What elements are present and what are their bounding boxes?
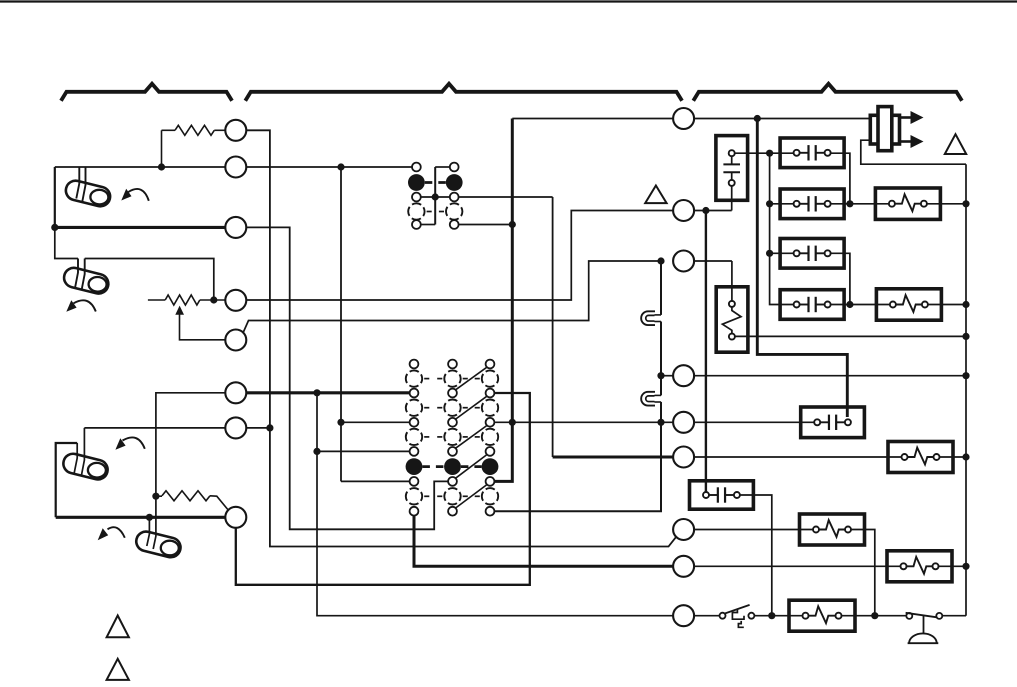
- wire: knob K4 tick1: [147, 517, 150, 546]
- wire: terminal T4 row from autopilot terminal R2: [246, 211, 673, 301]
- rotation arrow for K3: [115, 437, 144, 449]
- wire: terminal R5 row to cap filter C6: [694, 421, 814, 423]
- trim wheel knob K1: [64, 179, 112, 209]
- warning triangle note 4: [945, 134, 966, 154]
- wire: knob K2 pickup ticks: [75, 259, 85, 290]
- wire: SW2 to right bus corner: [942, 615, 966, 617]
- resistor filter FR4 box: [800, 514, 865, 545]
- junction dot: thick vertical V6 on R1 row: [754, 115, 761, 122]
- annotation brace: autopilot computer section: [245, 84, 682, 101]
- warning triangle note 2: [107, 659, 129, 680]
- cap filter C4 box: [780, 290, 844, 320]
- junction dot: right bus FL2 row: [962, 333, 969, 340]
- terminal R7: [673, 519, 694, 540]
- wire: terminal T1 to long vertical V1 down to terminal R7 row: [246, 130, 676, 546]
- wire: vertical V8 feeding cap filter bank: [770, 153, 794, 304]
- wire: knob K2 tick2 to potentiometer right junction: [85, 259, 214, 301]
- terminal R1: [673, 108, 694, 129]
- wire: terminal T3 row (thick): [55, 226, 226, 229]
- terminal T3: [225, 217, 246, 238]
- junction dot: V3 tap on T2 row: [337, 163, 344, 170]
- S1 wafer matrix col1 contacts: [406, 360, 430, 516]
- junction dot: R2 row to vertical V7: [702, 207, 709, 214]
- resistor R1 body and leads: [162, 125, 226, 167]
- junction dot: col1 row3 tap on V3: [337, 419, 344, 426]
- wire: knob K3 bracket to T8 row: [56, 443, 77, 517]
- junction dot: knob K4 tick on T8 row: [146, 514, 153, 521]
- wire: wafer col3 row3 to cap filter C6 row: [494, 421, 673, 423]
- wire: relay filter FL2 bottom to right bus: [735, 335, 966, 337]
- relay filter FL2 (resistor) box: [716, 287, 748, 352]
- annotation brace: aircraft wiring section: [693, 84, 962, 101]
- cap filter C1 box: [780, 138, 844, 168]
- wire: V5 top row through terminal R1 to horn: [512, 118, 868, 120]
- junction dot: R2 lead on K4 vertical: [152, 493, 159, 500]
- junction dot: V8 on C2 row: [766, 200, 773, 207]
- cap filter C5 box: [690, 481, 754, 509]
- rotation arrow for K2: [66, 300, 96, 312]
- S1 wafer matrix position diagonals: [456, 367, 487, 508]
- annotation brace: control wheel section: [61, 84, 232, 101]
- S1 wafer A col2 contacts: [439, 163, 463, 229]
- terminal R6: [673, 447, 694, 468]
- wire: vertical V7 from R2 row to cap filter C5: [705, 211, 707, 493]
- wire: terminal T6 row to switch wafer col1 (thick): [246, 391, 409, 394]
- rotation arrow for K4: [98, 527, 125, 540]
- S1 wafer matrix left stub wires: [317, 422, 410, 481]
- junction dot: R3 row: [657, 257, 664, 264]
- wire: terminal T7 to junction on V1: [246, 427, 270, 429]
- relay filter FL1 (capacitor) box: [716, 136, 748, 201]
- S1 wafer matrix col3 contacts: [475, 360, 499, 516]
- terminal T6: [225, 382, 246, 403]
- wire: T8 down and across to vertical V3 up to switch wafer col3: [236, 393, 530, 585]
- wire: terminal T8 row (thick): [56, 516, 226, 519]
- wire: terminal R3 to relay filter FL2 top: [694, 261, 732, 301]
- cap filter C2 box: [780, 189, 844, 219]
- junction dot: RP1 right lead: [210, 296, 217, 303]
- cap filter C6 box: [801, 407, 865, 438]
- junction dot: right bus FR3 row: [962, 453, 969, 460]
- wire: FR5 to right bus: [939, 565, 967, 567]
- wire: knob K1 pickup ticks: [76, 167, 85, 202]
- junction dot: bracket joins T3 row: [51, 224, 58, 231]
- junction dot: R4 row: [657, 372, 664, 379]
- junction dot: C1-C2 link: [846, 200, 853, 207]
- wire: terminal R2 to relay filter FL1 bottom: [694, 186, 732, 211]
- trim wheel knob K2: [62, 266, 110, 296]
- wire: vertical riser with lamps from R3 junction to C6 row: [660, 261, 662, 422]
- terminal R5: [673, 412, 694, 433]
- wire: horn return down to right bus: [861, 140, 966, 164]
- S1 wafer A col1 contacts: [408, 163, 432, 229]
- trim wheel knob K3: [61, 452, 109, 482]
- junction dot: right bus FR5 row: [962, 563, 969, 570]
- terminal R3: [673, 251, 694, 272]
- wire: terminal T6 left corner down to knob K4: [153, 393, 225, 549]
- wire: FR2 to right bus: [928, 304, 966, 306]
- wire: cap filter C2 row to resistor filter FR1: [770, 203, 890, 205]
- junction dot: right bus R4 row: [962, 372, 969, 379]
- wire: terminal R9 to pushbutton SW1: [694, 615, 719, 617]
- terminal R4: [673, 365, 694, 386]
- terminal T8: [225, 507, 246, 528]
- wire: cap filter C1 right link down to C2 row: [829, 153, 850, 204]
- warning horn LS1: [870, 107, 923, 151]
- cap filter C3 box: [780, 239, 844, 269]
- pushbutton switch SW2 with bell dome: [906, 613, 943, 643]
- wire: long vertical V3 from T2-row tap to wafer col1 bottom stub: [340, 167, 342, 481]
- wire: terminal T5 diagonal jog to terminal R3 junction: [243, 261, 661, 333]
- junction dot: C6 row crossing V5: [509, 419, 516, 426]
- resistor R2 body with diagonal lead to terminal T8: [156, 491, 228, 510]
- terminal T2: [225, 157, 246, 178]
- terminal T5: [225, 330, 246, 351]
- wire: terminal R7 row to resistor filter FR4: [694, 529, 813, 531]
- junction dot: T7 on V1: [266, 424, 273, 431]
- trim wheel knob K4: [134, 529, 182, 559]
- wire: FR3 to right bus: [940, 456, 967, 458]
- wire: terminal R6 row to resistor filter FR3: [694, 456, 901, 458]
- wire: FR6 to pushbutton SW2: [842, 615, 907, 617]
- wire: terminal T7 row to knob K3: [81, 428, 225, 476]
- junction dot: wafer A row2 on link: [432, 193, 439, 200]
- resistor filter FR5 box: [887, 551, 952, 582]
- junction dot: R1 lead on T2 row: [158, 163, 165, 170]
- rotation arrow for K1: [121, 189, 149, 201]
- wire: FR1 to right bus: [927, 203, 966, 205]
- wire: SW1 to resistor filter FR6: [754, 615, 802, 617]
- terminal T4: [225, 290, 246, 311]
- junction dot: C3-C4 link: [846, 301, 853, 308]
- wire: thick vertical V6 down to cap filter C6 right terminal: [757, 119, 847, 418]
- junction dot: FR4 drop on bottom row: [871, 612, 878, 619]
- resistor filter FR3 box: [888, 442, 953, 473]
- warning triangle note 1: [107, 616, 129, 638]
- resistor filter FR6 box: [789, 600, 855, 631]
- wire: wafer col3 row6 to vertical riser: [494, 422, 661, 511]
- S1 wafer matrix ganged coupling dashes: [422, 465, 481, 468]
- wire: terminal R8 row to resistor filter FR5: [694, 565, 900, 567]
- pushbutton switch SW1: [720, 605, 755, 627]
- junction dot: right bus FR2 row: [962, 301, 969, 308]
- wire: terminal R4 row to right bus: [661, 375, 966, 377]
- junction dot: C5 drop on bottom row: [768, 612, 775, 619]
- wire: wafer col3 row5 to thick vertical V5: [494, 119, 512, 482]
- wire: cap filter C5 right side down to bottom row: [739, 495, 771, 616]
- wire: relay filter FL1 top to cap filter bank: [735, 152, 794, 154]
- junction dot: col1 row4 stub on V4: [313, 448, 320, 455]
- S1 wafer matrix col2 contacts: [437, 360, 468, 516]
- wire: knob K2 bracket from T3 junction: [55, 227, 78, 258]
- wire: vertical from T2 bracket to T3 row: [54, 167, 56, 227]
- junction dot: C6 row: [657, 419, 664, 426]
- wire: cap filter C3 right link down to C4 row: [829, 253, 850, 304]
- warning triangle note 3: [645, 186, 666, 204]
- junction dot: right bus FR1 row: [962, 200, 969, 207]
- potentiometer RP1 wiper arrow to terminal T5: [175, 306, 225, 340]
- junction dot: V8 on C3 row: [766, 250, 773, 257]
- potentiometer RP1 body with leads: [148, 295, 225, 305]
- wire: right bus vertical: [965, 164, 967, 616]
- wire: wafer A row2 vertical drop to terminal R6 (thick horizontal): [553, 197, 674, 457]
- terminal R2: [673, 200, 694, 221]
- wire: wafer col1 bottom to terminal R8 row (thick): [414, 516, 673, 567]
- terminal R8: [673, 556, 694, 577]
- indicator lamp DS2: [641, 392, 661, 406]
- terminal T1: [225, 120, 246, 141]
- junction dot: filter bank feed: [766, 150, 773, 157]
- wire: T3 to vertical V2 down and across to switch wafer col2: [246, 227, 448, 529]
- wire: long vertical V4 from T6 row to terminal R9 row: [317, 393, 673, 616]
- wire: terminal T2 row with left bracket corner: [55, 166, 412, 168]
- junction dot: wafer A col2 bottom row on V5: [509, 221, 516, 228]
- wire: FR4 to bottom junction: [851, 530, 875, 616]
- terminal T7: [225, 417, 246, 438]
- wire: cap filter C3 row: [770, 252, 794, 254]
- wire: cap filter C4 row to resistor filter FR2: [829, 304, 890, 306]
- indicator lamp DS1: [641, 311, 661, 325]
- terminal R9: [673, 605, 694, 626]
- resistor filter FR2 box: [876, 289, 941, 320]
- rotary switch S1 wafer A wiring: [421, 167, 553, 225]
- junction dot: V4 tap on T6 row: [313, 389, 320, 396]
- resistor filter FR1 box: [875, 188, 940, 219]
